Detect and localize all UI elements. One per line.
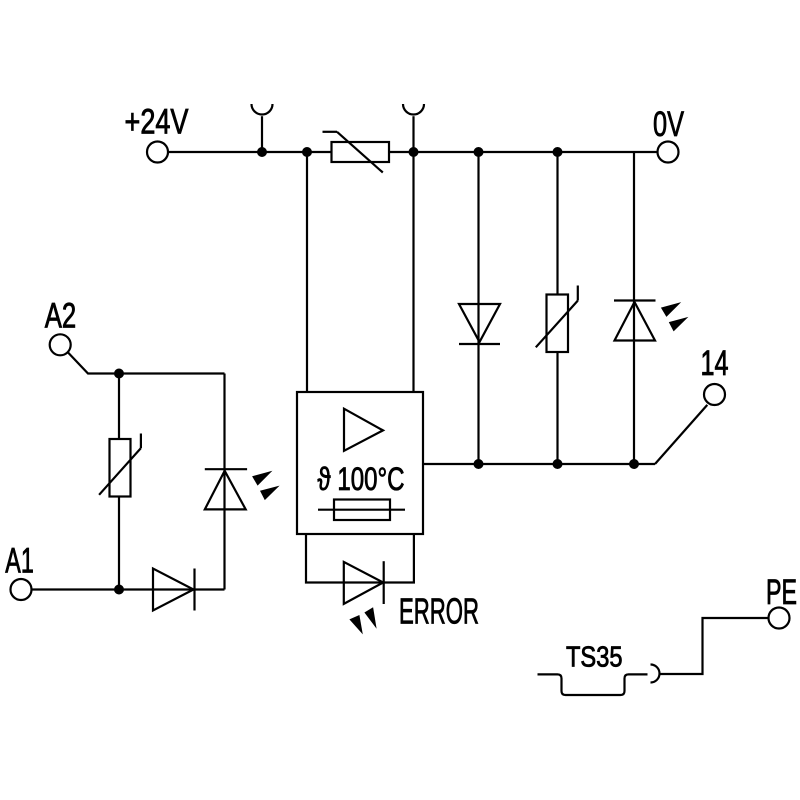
diode V1 [459, 304, 500, 344]
terminal 0V [658, 142, 679, 163]
rail clamp hook [651, 665, 660, 683]
terminal 14 [704, 384, 725, 405]
svg-text:ERROR: ERROR [399, 591, 479, 632]
wire A1 lead [32, 588, 225, 590]
LED V2 [614, 301, 688, 341]
node junction rail 4 [474, 147, 484, 157]
wire top supply rail [168, 151, 658, 153]
node junction output 3 [629, 459, 639, 469]
node junction rail 5 [553, 147, 563, 157]
svg-text:ϑ 100°C: ϑ 100°C [318, 461, 405, 497]
varistor RV1 [323, 132, 390, 173]
node junction output 1 [474, 459, 484, 469]
wire right supply pin [412, 152, 414, 392]
svg-text:A1: A1 [5, 542, 34, 581]
svg-text:14: 14 [701, 344, 729, 383]
electronics block U1 [297, 392, 423, 534]
svg-text:TS35: TS35 [566, 642, 623, 674]
terminal A2 [50, 334, 71, 355]
wire coil top [119, 372, 225, 374]
LED V5 ERROR [344, 561, 384, 634]
wire socket stem left [261, 116, 263, 152]
terminal A1 [11, 579, 32, 600]
svg-text:+24V: +24V [125, 103, 190, 142]
terminal +24V [147, 142, 168, 163]
wire varistor RV3 branch [118, 374, 120, 590]
node junction output 2 [553, 459, 563, 469]
wire error loop left [306, 534, 414, 583]
svg-text:A2: A2 [45, 296, 77, 335]
wire varistor branch [556, 152, 558, 464]
wire A2 lead [68, 352, 119, 373]
terminal PE [769, 608, 790, 629]
wire freewheel branch [477, 152, 479, 464]
svg-text:0V: 0V [653, 105, 684, 144]
plug-in socket symbol right [403, 104, 424, 115]
varistor RV3 [99, 434, 141, 497]
node junction A1 [114, 585, 124, 595]
wire LED branch [633, 152, 635, 464]
DIN rail TS35 profile [538, 674, 648, 695]
node junction rail 1 [257, 147, 267, 157]
LED V3 [205, 469, 280, 509]
wire LED1 branch [223, 374, 225, 590]
node junction rail 2 [302, 147, 312, 157]
node junction A2 [114, 369, 124, 379]
wire output rail [423, 463, 655, 465]
wire to terminal 14 [655, 405, 707, 464]
wire PE lead [660, 618, 769, 674]
amplifier symbol [344, 409, 383, 451]
svg-text:PE: PE [766, 573, 797, 612]
diode V4 [153, 569, 195, 611]
varistor RV2 [536, 286, 578, 353]
wire left supply pin [306, 152, 308, 392]
node junction rail 3 [409, 147, 419, 157]
plug-in socket symbol left [252, 104, 273, 115]
fuse F1 [318, 500, 405, 521]
wire socket stem right [412, 116, 414, 152]
